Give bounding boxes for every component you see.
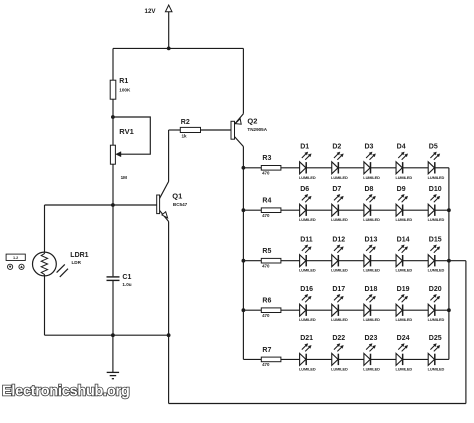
label D4	[397, 144, 406, 151]
photoresistor LDR1	[33, 252, 57, 276]
svg-text:R2: R2	[181, 119, 190, 126]
wire: D3 cathode	[371, 167, 397, 169]
wire: D1 cathode	[306, 167, 332, 169]
wire: RV1 wiper loop	[113, 117, 150, 154]
svg-text:D7: D7	[332, 186, 341, 193]
wire: D6 cathode	[306, 209, 332, 211]
svg-text:LUMILED: LUMILED	[331, 317, 348, 322]
wire: node to RV1 top	[112, 117, 114, 145]
svg-text:D24: D24	[397, 335, 410, 342]
wire: D20 cathode	[435, 309, 449, 311]
wire: R3 to D1	[281, 167, 300, 169]
label Q1	[172, 192, 182, 201]
wire: bus to R6	[243, 309, 261, 311]
value R6 470	[262, 313, 270, 318]
wire: RV1 bottom to base wire	[112, 164, 114, 205]
label D2	[332, 144, 341, 151]
label D3	[365, 144, 374, 151]
value D10 LUMILED	[428, 217, 445, 222]
LED D17	[332, 294, 344, 316]
svg-text:D3: D3	[365, 144, 374, 151]
value D2 LUMILED	[331, 175, 348, 180]
svg-text:D1: D1	[300, 144, 309, 151]
value D11 LUMILED	[299, 268, 316, 273]
value D25 LUMILED	[428, 366, 445, 371]
wire: D24 cathode	[403, 358, 429, 360]
svg-text:D2: D2	[332, 144, 341, 151]
svg-text:LUMILED: LUMILED	[363, 268, 380, 273]
label D7	[332, 186, 341, 193]
junction: left bus row R6	[242, 308, 246, 312]
LED D15	[428, 245, 440, 267]
LDR1 light slashes	[57, 264, 68, 277]
svg-text:470: 470	[262, 313, 270, 318]
value C1 1.0u	[122, 282, 131, 287]
label R5	[262, 248, 271, 255]
value D4 LUMILED	[395, 175, 412, 180]
svg-text:LUMILED: LUMILED	[428, 268, 445, 273]
transistor Q1	[157, 182, 169, 222]
value D14 LUMILED	[395, 268, 412, 273]
label D22	[332, 335, 345, 342]
LED D9	[396, 194, 408, 216]
wire: R2 left down to Q1 collector	[168, 130, 170, 182]
wire: outer return bottom	[169, 403, 466, 405]
value R7 470	[262, 362, 270, 367]
junction: left bus row R3	[242, 166, 246, 170]
RV1 wiper arrow	[116, 152, 121, 157]
resistor R6	[261, 308, 281, 313]
wire: D10 cathode	[435, 209, 449, 211]
LDR widget up button	[19, 264, 24, 269]
wire: bus to R3	[243, 167, 261, 169]
value R1 100K	[119, 87, 131, 92]
junction: C1/ground on bottom rail	[111, 333, 115, 337]
LED D25	[428, 344, 440, 366]
svg-text:LDR1: LDR1	[70, 252, 88, 259]
value R3 470	[262, 170, 270, 175]
wire: R4 to D6	[281, 209, 300, 211]
wire: D21 cathode	[306, 358, 332, 360]
value D15 LUMILED	[428, 268, 445, 273]
wire: D18 cathode	[371, 309, 397, 311]
label R4	[262, 198, 271, 205]
wire: Q1 collector to R2	[169, 129, 181, 131]
label D10	[429, 186, 442, 193]
LED D22	[332, 344, 344, 366]
ground	[107, 335, 119, 379]
value R2 1k	[182, 134, 188, 139]
label D21	[300, 335, 313, 342]
LED D12	[332, 245, 344, 267]
svg-text:LUMILED: LUMILED	[395, 366, 412, 371]
svg-text:1M: 1M	[121, 175, 128, 180]
wire: LDR to bottom rail	[44, 276, 46, 335]
LED D6	[300, 194, 312, 216]
svg-text:D25: D25	[429, 335, 442, 342]
svg-text:R4: R4	[262, 198, 271, 205]
svg-text:100K: 100K	[119, 87, 131, 92]
label D17	[332, 286, 345, 293]
label D13	[365, 236, 378, 243]
value D9 LUMILED	[395, 217, 412, 222]
wire: R5 to D11	[281, 260, 300, 262]
resistor R4	[261, 208, 281, 213]
svg-text:LUMILED: LUMILED	[299, 175, 316, 180]
svg-text:470: 470	[262, 170, 270, 175]
label D11	[300, 236, 313, 243]
svg-text:LUMILED: LUMILED	[428, 366, 445, 371]
svg-text:D13: D13	[365, 236, 378, 243]
value D24 LUMILED	[395, 366, 412, 371]
svg-text:LUMILED: LUMILED	[299, 317, 316, 322]
label D12	[332, 236, 345, 243]
svg-text:D12: D12	[332, 236, 345, 243]
label D25	[429, 335, 442, 342]
value D18 LUMILED	[363, 317, 380, 322]
wire: bus to R4	[243, 209, 261, 211]
wire: D15 cathode	[435, 260, 449, 262]
svg-text:LUMILED: LUMILED	[331, 366, 348, 371]
svg-text:R6: R6	[262, 298, 271, 305]
LED D21	[300, 344, 312, 366]
wire: R1 to RV1 node	[112, 99, 114, 117]
wire: D23 cathode	[371, 358, 397, 360]
LED D5	[428, 152, 440, 174]
svg-text:LUMILED: LUMILED	[299, 217, 316, 222]
wire: rail to R1	[112, 48, 114, 80]
svg-text:LUMILED: LUMILED	[428, 217, 445, 222]
label D20	[429, 286, 442, 293]
label R7	[262, 347, 271, 354]
svg-text:D11: D11	[300, 236, 313, 243]
junction: left bus row R4	[242, 208, 246, 212]
svg-text:D18: D18	[365, 286, 378, 293]
svg-text:LUMILED: LUMILED	[395, 175, 412, 180]
svg-text:1.2: 1.2	[13, 256, 18, 260]
svg-text:D4: D4	[397, 144, 406, 151]
label D19	[397, 286, 410, 293]
label D6	[300, 186, 309, 193]
watermark Electronicshub.org	[2, 384, 130, 400]
svg-text:LUMILED: LUMILED	[363, 175, 380, 180]
svg-text:Q2: Q2	[247, 117, 257, 126]
wire: LDR node to Q1 base	[45, 204, 157, 206]
value Q1 BC547	[173, 202, 188, 207]
potentiometer RV1 body	[110, 145, 115, 164]
junction: R1/RV1 node	[111, 115, 115, 119]
wire: base wire to C1 top	[112, 205, 114, 276]
value R4 470	[262, 213, 270, 218]
LED D8	[364, 194, 376, 216]
wire: R2 to Q2 base	[201, 129, 232, 131]
LED D3	[364, 152, 376, 174]
wire: D11 cathode	[306, 260, 332, 262]
svg-text:D17: D17	[332, 286, 345, 293]
label D1	[300, 144, 309, 151]
svg-text:LUMILED: LUMILED	[395, 268, 412, 273]
svg-text:LUMILED: LUMILED	[331, 217, 348, 222]
resistor R1	[110, 80, 116, 99]
value D23 LUMILED	[363, 366, 380, 371]
LED D4	[396, 152, 408, 174]
svg-text:R3: R3	[262, 155, 271, 162]
LED D16	[300, 294, 312, 316]
value D22 LUMILED	[331, 366, 348, 371]
wire: D2 cathode	[338, 167, 364, 169]
svg-text:D20: D20	[429, 286, 442, 293]
wire: outer return vertical	[465, 261, 467, 404]
LED D1	[300, 152, 312, 174]
svg-text:RV1: RV1	[119, 127, 133, 136]
svg-text:LUMILED: LUMILED	[299, 366, 316, 371]
value D1 LUMILED	[299, 175, 316, 180]
LED D11	[300, 245, 312, 267]
wire: Q1 emitter to bottom rail	[168, 222, 170, 336]
wire: D13 cathode	[371, 260, 397, 262]
svg-text:BC547: BC547	[173, 202, 188, 207]
label R1	[119, 78, 128, 85]
label D8	[365, 186, 374, 193]
wire: D5 cathode	[435, 167, 449, 169]
value D16 LUMILED	[299, 317, 316, 322]
svg-text:R1: R1	[119, 78, 128, 85]
svg-text:1k: 1k	[182, 134, 188, 139]
value D12 LUMILED	[331, 268, 348, 273]
svg-text:D5: D5	[429, 144, 438, 151]
wire: base wire down to LDR	[44, 205, 46, 252]
value LDR	[72, 260, 82, 265]
value D17 LUMILED	[331, 317, 348, 322]
svg-text:LDR: LDR	[72, 260, 82, 265]
junction: right bus at D10 row	[447, 208, 451, 212]
label D16	[300, 286, 313, 293]
svg-text:R7: R7	[262, 347, 271, 354]
svg-text:LUMILED: LUMILED	[363, 317, 380, 322]
svg-text:D9: D9	[397, 186, 406, 193]
svg-text:R5: R5	[262, 248, 271, 255]
svg-text:Electronicshub.org: Electronicshub.org	[2, 384, 130, 400]
power 12V	[165, 5, 172, 48]
label D23	[365, 335, 378, 342]
value D8 LUMILED	[363, 217, 380, 222]
svg-text:D10: D10	[429, 186, 442, 193]
svg-text:1.0u: 1.0u	[122, 282, 131, 287]
LED D23	[364, 344, 376, 366]
svg-text:LUMILED: LUMILED	[428, 175, 445, 180]
junction: 12V arrow on rail	[167, 47, 171, 51]
LDR widget down button	[8, 264, 13, 269]
wire: D16 cathode	[306, 309, 332, 311]
wire: D9 cathode	[403, 209, 429, 211]
value D7 LUMILED	[331, 217, 348, 222]
value D5 LUMILED	[428, 175, 445, 180]
svg-text:TN2905A: TN2905A	[247, 127, 267, 132]
svg-text:LUMILED: LUMILED	[428, 317, 445, 322]
wire: Q2 emitter to 12V rail	[242, 48, 244, 113]
wire: row3 to outer return	[449, 260, 466, 262]
svg-text:D8: D8	[365, 186, 374, 193]
label D18	[365, 286, 378, 293]
wire: D25 cathode	[435, 358, 449, 360]
svg-text:LUMILED: LUMILED	[363, 217, 380, 222]
resistor R2	[180, 127, 200, 132]
resistor R7	[261, 357, 281, 362]
label D14	[397, 236, 410, 243]
capacitor C1	[107, 277, 120, 281]
svg-text:D23: D23	[365, 335, 378, 342]
junction: right bus at D15 row	[447, 259, 451, 263]
value RV1 1M	[121, 175, 128, 180]
label LDR1	[70, 252, 88, 259]
svg-text:470: 470	[262, 263, 270, 268]
LED D24	[396, 344, 408, 366]
svg-text:LUMILED: LUMILED	[363, 366, 380, 371]
LED D18	[364, 294, 376, 316]
label RV1	[119, 127, 133, 136]
label R2	[181, 119, 190, 126]
wire: R7 to D21	[281, 358, 300, 360]
LDR control widget box 1.2	[6, 254, 25, 260]
svg-text:D15: D15	[429, 236, 442, 243]
value D13 LUMILED	[363, 268, 380, 273]
value D6 LUMILED	[299, 217, 316, 222]
wire: bus to R7	[243, 358, 261, 360]
wire: D17 cathode	[338, 309, 364, 311]
junction: Q1 emitter / ground rail	[167, 333, 171, 337]
wire: R6 to D16	[281, 309, 300, 311]
wire: C1 bottom to ground rail	[112, 281, 114, 335]
wire: bottom ground rail	[45, 334, 169, 336]
value D19 LUMILED	[395, 317, 412, 322]
label R6	[262, 298, 271, 305]
value R5 470	[262, 263, 270, 268]
wire: D4 cathode	[403, 167, 429, 169]
wire: D19 cathode	[403, 309, 429, 311]
svg-text:Q1: Q1	[172, 192, 182, 201]
wire: D12 cathode	[338, 260, 364, 262]
svg-text:D14: D14	[397, 236, 410, 243]
resistor R3	[261, 166, 281, 171]
svg-text:C1: C1	[122, 274, 131, 281]
wire: right return bus	[448, 168, 450, 360]
label R3	[262, 155, 271, 162]
junction: left bus row R5	[242, 259, 246, 263]
label D24	[397, 335, 410, 342]
wire: D7 cathode	[338, 209, 364, 211]
label D15	[429, 236, 442, 243]
label C1	[122, 274, 131, 281]
junction: right bus at D20 row	[447, 308, 451, 312]
value D20 LUMILED	[428, 317, 445, 322]
svg-text:D22: D22	[332, 335, 345, 342]
wire: bus to R5	[243, 260, 261, 262]
svg-text:D6: D6	[300, 186, 309, 193]
svg-text:LUMILED: LUMILED	[395, 217, 412, 222]
LED D13	[364, 245, 376, 267]
value D21 LUMILED	[299, 366, 316, 371]
svg-text:470: 470	[262, 362, 270, 367]
value D3 LUMILED	[363, 175, 380, 180]
LED D19	[396, 294, 408, 316]
label D9	[397, 186, 406, 193]
wire: D14 cathode	[403, 260, 429, 262]
LED D14	[396, 245, 408, 267]
svg-text:470: 470	[262, 213, 270, 218]
wire: Q2 collector LED bus (left)	[242, 147, 244, 360]
wire: +12V top rail	[113, 47, 243, 49]
svg-text:12V: 12V	[145, 8, 157, 15]
svg-text:LUMILED: LUMILED	[299, 268, 316, 273]
svg-text:D21: D21	[300, 335, 313, 342]
resistor R5	[261, 258, 281, 263]
transistor Q2	[231, 114, 243, 147]
wire: D8 cathode	[371, 209, 397, 211]
wire: Q1 emitter rail down to outer return	[168, 335, 170, 403]
LED D20	[428, 294, 440, 316]
value Q2 TN2905A	[247, 127, 267, 132]
label D5	[429, 144, 438, 151]
svg-text:D19: D19	[397, 286, 410, 293]
junction: RV1/C1 on base wire	[111, 203, 115, 207]
LED D7	[332, 194, 344, 216]
LED D10	[428, 194, 440, 216]
svg-text:D16: D16	[300, 286, 313, 293]
svg-text:LUMILED: LUMILED	[331, 175, 348, 180]
wire: D22 cathode	[338, 358, 364, 360]
svg-text:LUMILED: LUMILED	[395, 317, 412, 322]
label Q2	[247, 117, 257, 126]
LED D2	[332, 152, 344, 174]
svg-text:LUMILED: LUMILED	[331, 268, 348, 273]
label 12V	[145, 8, 157, 15]
